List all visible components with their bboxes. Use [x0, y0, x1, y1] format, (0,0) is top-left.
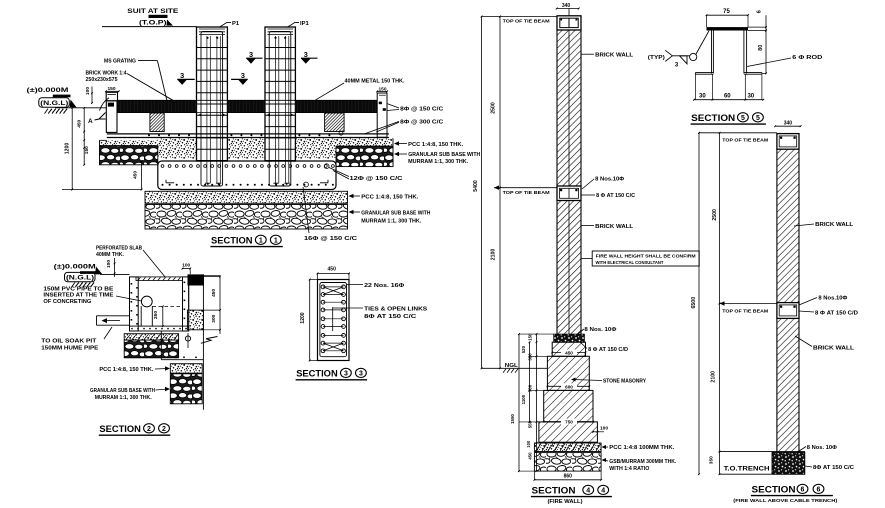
trench bottom slab lines with rebar dots — [107, 134, 389, 138]
svg-text:IP1: IP1 — [300, 21, 309, 27]
svg-text:2: 2 — [147, 426, 151, 433]
dimension 450 footing depth — [133, 160, 143, 190]
label TO OIL SOAK PIT — [41, 327, 112, 351]
svg-text:4: 4 — [601, 487, 605, 494]
right stipple block — [187, 310, 203, 330]
svg-text:250: 250 — [153, 311, 159, 319]
PCC band section 4-4 — [534, 443, 601, 452]
sump box right of pit — [161, 331, 203, 360]
svg-text:GRANULAR SUB BASE WITH: GRANULAR SUB BASE WITH — [361, 211, 430, 217]
section cut mark 3 left of column IP1 — [231, 71, 248, 85]
label PCC section 4-4 — [602, 445, 675, 451]
PCC layer under footing — [145, 191, 348, 203]
label P1 — [219, 21, 240, 28]
tick arrows at column faces — [198, 113, 293, 116]
label top of tie beam 1 section 4-4 — [482, 17, 557, 25]
svg-text:TOP OF TIE BEAM: TOP OF TIE BEAM — [503, 18, 550, 24]
dimension 340 top section 6-6 — [774, 120, 801, 127]
svg-text:(TYP): (TYP) — [648, 55, 665, 61]
label 8 dia 150 C/C — [387, 104, 444, 113]
svg-text:5400: 5400 — [473, 180, 479, 192]
NGL line section 4-4 — [482, 363, 547, 373]
label IP1 — [287, 21, 309, 28]
svg-text:30: 30 — [747, 94, 754, 100]
left granular sub base rubble band — [100, 146, 158, 165]
svg-text:8Φ @ 150 C/C: 8Φ @ 150 C/C — [400, 106, 443, 112]
svg-text:(FIRE WALL ABOVE CABLE TRENCH): (FIRE WALL ABOVE CABLE TRENCH) — [733, 498, 838, 503]
dimension 6500 overall section 6-6 — [691, 132, 700, 475]
tie beam box 1 section 6-6 — [777, 134, 799, 150]
svg-text:SECTION: SECTION — [99, 424, 141, 435]
lower granular block — [170, 374, 202, 404]
svg-text:1200: 1200 — [300, 312, 306, 323]
dimension 1200 section 3-3 — [300, 279, 317, 362]
svg-text:SECTION: SECTION — [752, 485, 796, 496]
svg-text:2100: 2100 — [490, 249, 496, 261]
svg-text:2100: 2100 — [711, 371, 717, 383]
label 8 dia AT 150 C/D section 4-4 — [580, 342, 628, 353]
title SECTION 2-2 — [99, 424, 171, 436]
dimension 450 right — [189, 276, 221, 334]
dimension 150 right wall — [376, 86, 388, 92]
label PCC right — [394, 141, 464, 148]
svg-text:12Φ @ 150 C/C: 12Φ @ 150 C/C — [350, 176, 403, 182]
svg-text:340: 340 — [784, 120, 793, 126]
label BRICK WALL upper section 4-4 — [582, 53, 635, 59]
svg-text:TO OIL SOAK PIT: TO OIL SOAK PIT — [41, 339, 96, 345]
svg-text:60: 60 — [724, 94, 731, 100]
pit bottom slab — [130, 326, 189, 331]
svg-text:T.O.TRENCH: T.O.TRENCH — [724, 466, 770, 473]
label BRICK WALL lower section 6-6 — [795, 336, 855, 352]
svg-text:16Φ @ 150 C/C: 16Φ @ 150 C/C — [304, 236, 357, 242]
svg-text:100: 100 — [85, 87, 91, 95]
label top of tie beam 1 section 6-6 — [699, 133, 777, 144]
svg-text:22 Nos. 16Φ: 22 Nos. 16Φ — [364, 283, 405, 289]
black masonry block — [188, 274, 205, 285]
svg-text:750: 750 — [565, 420, 573, 425]
svg-text:FIRE WALL HEIGHT SHALL BE CONF: FIRE WALL HEIGHT SHALL BE CONFIRM — [596, 254, 696, 259]
label 16 dia 150 C/C — [303, 187, 357, 242]
svg-text:SECTION: SECTION — [691, 113, 735, 124]
svg-text:2500: 2500 — [490, 102, 496, 114]
MS grating black band — [118, 100, 378, 112]
label BRICK WALL upper section 6-6 — [794, 222, 854, 228]
label top of tie beam 2 section 4-4 — [494, 185, 557, 196]
svg-text:1550: 1550 — [510, 414, 515, 424]
brick wall upper section 6-6 — [777, 149, 799, 302]
label PCC under footing — [349, 194, 419, 201]
brick wall lower section 6-6 — [777, 318, 799, 451]
svg-text:BRICK WALL: BRICK WALL — [813, 346, 855, 352]
svg-text:6 Φ ROD: 6 Φ ROD — [792, 55, 822, 61]
svg-text:GSB/MURRAM 300MM THK.: GSB/MURRAM 300MM THK. — [609, 459, 677, 465]
title SECTION 6-6 — [733, 484, 838, 503]
step width dims — [543, 350, 594, 425]
svg-text:SECTION: SECTION — [296, 369, 338, 380]
svg-text:3: 3 — [180, 71, 184, 80]
title SECTION 3-3 — [296, 368, 368, 380]
label 8 dia 300 C/C — [365, 120, 444, 134]
svg-text:100: 100 — [106, 260, 112, 268]
svg-text:1: 1 — [274, 237, 278, 244]
svg-text:150M PVC PIPE TO BE: 150M PVC PIPE TO BE — [43, 286, 114, 292]
svg-text:80: 80 — [758, 45, 764, 51]
pit top perforated slab — [136, 277, 183, 281]
svg-text:75: 75 — [723, 9, 730, 15]
svg-text:A: A — [88, 118, 93, 125]
dimension 6 plate thickness — [748, 9, 767, 31]
dimension 100 top left — [106, 258, 116, 277]
svg-text:P1: P1 — [232, 21, 240, 27]
svg-text:1100: 1100 — [521, 394, 526, 404]
svg-text:450: 450 — [211, 289, 217, 297]
svg-text:WITH ELECTRICAL CONSULTANT: WITH ELECTRICAL CONSULTANT — [596, 260, 664, 265]
pit left wall — [130, 277, 139, 331]
svg-text:3: 3 — [304, 50, 308, 59]
svg-text:600: 600 — [565, 384, 573, 389]
svg-text:450: 450 — [565, 351, 573, 356]
label PCC pit — [99, 366, 170, 373]
label GSB section 4-4 — [602, 458, 677, 472]
right wall lines of pit — [189, 274, 220, 409]
label 8 Nos 10 dia section 4-4 — [577, 327, 617, 334]
pit PCC band — [124, 334, 178, 340]
svg-text:2: 2 — [162, 426, 166, 433]
label granular sub base right — [394, 152, 480, 165]
dimension 1200 left — [62, 107, 142, 190]
svg-text:8 Nos.10Φ: 8 Nos.10Φ — [818, 295, 848, 301]
pit right wall — [183, 277, 189, 331]
svg-text:520: 520 — [521, 345, 526, 353]
svg-text:300: 300 — [211, 314, 217, 322]
svg-text:3: 3 — [249, 50, 253, 59]
svg-text:SUIT AT SITE: SUIT AT SITE — [127, 8, 178, 15]
label PVC pipe note — [43, 286, 141, 304]
svg-text:6500: 6500 — [691, 297, 697, 309]
svg-text:3: 3 — [241, 71, 245, 80]
svg-text:860: 860 — [564, 474, 573, 480]
svg-text:PERFORATED SLAB: PERFORATED SLAB — [96, 246, 142, 252]
svg-text:PCC 1:4:8, 150 THK.: PCC 1:4:8, 150 THK. — [99, 367, 154, 373]
dimension 450 top of section 3-3 — [317, 267, 350, 280]
title SECTION 5-5 — [691, 113, 766, 124]
svg-text:MURRAM 1:1, 300 THK.: MURRAM 1:1, 300 THK. — [408, 159, 469, 165]
svg-text:BRICK WALL: BRICK WALL — [815, 222, 854, 228]
svg-text:1200: 1200 — [64, 143, 70, 155]
svg-text:TOP OF TIE BEAM: TOP OF TIE BEAM — [503, 190, 550, 196]
section cut mark 3 left of column P1 — [177, 71, 195, 85]
left wall of trench — [100, 98, 118, 133]
label T.O.TRENCH — [724, 466, 770, 473]
stone masonry step 1 — [552, 342, 585, 356]
svg-text:1: 1 — [259, 237, 263, 244]
svg-text:MS GRATING: MS GRATING — [104, 58, 136, 64]
detail bracket A — [88, 113, 106, 126]
svg-text:BRICK WALL: BRICK WALL — [595, 224, 634, 230]
label BRICK WALL lower section 4-4 — [582, 224, 635, 230]
dimension 80 section 5-5 — [748, 30, 767, 75]
svg-text:250x230x575: 250x230x575 — [86, 77, 118, 83]
boxed note fire wall height — [582, 251, 700, 266]
svg-text:STONE MASONRY: STONE MASONRY — [603, 379, 647, 385]
dimension 2500 2100 section 4-4 — [490, 16, 501, 370]
label PERFORATED SLAB — [96, 246, 165, 277]
label top of tie beam 2 section 6-6 — [720, 301, 777, 314]
label STONE MASONRY — [571, 378, 647, 385]
section cut mark 3 right of column P1 — [246, 50, 263, 64]
top plate section 5-5 — [707, 27, 749, 30]
svg-text:350: 350 — [709, 456, 715, 464]
label 8 dia AT 150 beam2 — [582, 193, 636, 199]
svg-text:8 Φ AT 150 C/D: 8 Φ AT 150 C/D — [815, 311, 858, 317]
hatched brick pier 1 — [150, 113, 164, 132]
svg-text:GRANULAR SUB BASE WITH: GRANULAR SUB BASE WITH — [90, 388, 155, 394]
right granular sub base rubble band — [336, 146, 393, 166]
svg-text:100: 100 — [600, 425, 608, 431]
svg-text:TIES & OPEN LINKS: TIES & OPEN LINKS — [364, 306, 427, 312]
svg-text:150: 150 — [84, 146, 90, 154]
svg-text:SECTION: SECTION — [211, 236, 253, 247]
channel section 5-5 — [695, 31, 762, 75]
stone masonry step 4 — [539, 422, 598, 442]
svg-text:40MM METAL 150 THK.: 40MM METAL 150 THK. — [345, 78, 406, 84]
brick wall upper section 4-4 — [557, 30, 581, 186]
brick wall lower section 4-4 — [557, 201, 581, 335]
section 1-1 column P1 — [197, 27, 228, 186]
section 1-1 column IP1 — [265, 27, 295, 186]
tie beam box 2 section 6-6 — [777, 303, 799, 319]
label ties and open links — [333, 306, 428, 319]
label 40MM METAL 150 THK — [315, 78, 405, 100]
upper PCC stipple band — [100, 138, 394, 166]
lower dimension stack section 4-4 — [510, 333, 554, 472]
svg-text:450: 450 — [328, 267, 337, 273]
natural ground level marker — [27, 88, 107, 114]
dimension 5400 overall section 4-4 — [473, 16, 483, 370]
svg-text:PCC 1:4:8, 150 THK.: PCC 1:4:8, 150 THK. — [361, 194, 419, 200]
svg-text:5: 5 — [756, 115, 760, 122]
label 8 Nos 10 upper beam2 — [582, 177, 625, 189]
stone masonry step 2 — [547, 356, 589, 390]
dimension 860 bottom section 4-4 — [534, 471, 603, 481]
svg-text:TOP OF TIE BEAM: TOP OF TIE BEAM — [722, 309, 768, 315]
svg-text:8 Φ AT 150 C/D: 8 Φ AT 150 C/D — [588, 347, 628, 353]
svg-text:(±)0.000M: (±)0.000M — [27, 88, 69, 94]
svg-text:3: 3 — [359, 370, 363, 377]
lower PCC block — [170, 364, 202, 373]
label 6 dia rod — [747, 55, 822, 66]
svg-text:8Φ @ 300 C/C: 8Φ @ 300 C/C — [400, 120, 443, 126]
label 8 Nos 10 trench — [797, 445, 838, 453]
label 8 dia AT 150 C/D section 6-6 — [799, 311, 858, 317]
svg-text:BRICK WALL: BRICK WALL — [595, 53, 634, 59]
tie beam box 1 section 4-4 — [557, 16, 581, 30]
section 1-1 T.O.P level note SUIT AT SITE — [102, 8, 197, 27]
svg-text:INSERTED AT THE TIME: INSERTED AT THE TIME — [43, 293, 114, 299]
label 22 Nos 16 dia — [346, 283, 405, 289]
dimension 30 60 30 section 5-5 — [693, 74, 764, 100]
earthing electrode symbol — [185, 333, 217, 348]
svg-text:150MM HUME PIPE: 150MM HUME PIPE — [41, 345, 99, 351]
pipe to soak pit — [97, 316, 130, 325]
left curb brick 150 — [106, 92, 117, 101]
svg-text:8 Nos. 10Φ: 8 Nos. 10Φ — [584, 327, 617, 333]
dimension 100 top right — [182, 263, 192, 275]
granular band section 4-4 — [534, 453, 601, 472]
svg-text:(N.G.L): (N.G.L) — [66, 276, 94, 282]
svg-text:450: 450 — [133, 171, 139, 179]
svg-text:8 Nos.10Φ: 8 Nos.10Φ — [595, 177, 625, 183]
svg-text:340: 340 — [562, 3, 571, 9]
svg-text:(FIRE WALL): (FIRE WALL) — [548, 499, 583, 505]
granular sub base under footing — [145, 205, 348, 230]
label granular pit — [90, 387, 170, 401]
dimension 100 step offset — [592, 425, 608, 432]
dimension 150 left curb — [105, 86, 120, 92]
svg-text:SECTION: SECTION — [532, 486, 576, 497]
stone masonry step 3 — [544, 390, 593, 422]
right end wall — [377, 93, 387, 137]
svg-text:BRICK WORK 1:4: BRICK WORK 1:4 — [86, 71, 127, 77]
dimension 75 top section 5-5 — [706, 9, 749, 27]
label BRICK WORK — [86, 71, 173, 101]
svg-text:100: 100 — [526, 440, 531, 448]
svg-text:4: 4 — [586, 487, 590, 494]
section 2-2 ground level note — [54, 265, 130, 288]
svg-text:PCC 1:4:8 100MM THK.: PCC 1:4:8 100MM THK. — [609, 445, 675, 451]
svg-text:8Φ AT 150 C/C: 8Φ AT 150 C/C — [364, 314, 416, 320]
svg-text:40MM THK.: 40MM THK. — [96, 252, 125, 258]
label 12 dia 150 C/C — [329, 168, 403, 183]
section cut mark 3 right of column IP1 — [301, 50, 318, 64]
svg-text:OF CONCRETING: OF CONCRETING — [43, 299, 91, 305]
svg-text:8Φ AT 150 C/C: 8Φ AT 150 C/C — [813, 465, 854, 471]
svg-text:3: 3 — [344, 370, 348, 377]
plinth beam black band section 4-4 — [554, 334, 585, 342]
svg-text:(±)0.000M: (±)0.000M — [54, 265, 96, 271]
cable trench block — [720, 452, 806, 475]
dimension 100 450 150 left — [76, 87, 93, 166]
label MS GRATING — [104, 58, 167, 100]
svg-text:GRANULAR SUB BASE WITH: GRANULAR SUB BASE WITH — [408, 152, 480, 158]
label 8 Nos 10 section 6-6 beam2 — [799, 295, 848, 305]
svg-text:(N.G.L): (N.G.L) — [40, 101, 68, 107]
svg-text:6: 6 — [817, 486, 821, 493]
svg-text:8 Nos. 10Φ: 8 Nos. 10Φ — [807, 445, 838, 451]
column cross section 3-3 box — [318, 280, 350, 361]
svg-text:5: 5 — [741, 115, 745, 122]
svg-text:PCC 1:4:8, 150 THK.: PCC 1:4:8, 150 THK. — [408, 142, 464, 148]
hatched brick pier 2 — [325, 113, 345, 132]
weld symbol TYP — [648, 31, 709, 69]
svg-text:TOP OF TIE BEAM: TOP OF TIE BEAM — [722, 138, 768, 144]
label 8 dia AT 150 C/C trench — [805, 465, 854, 471]
svg-text:6: 6 — [801, 486, 805, 493]
svg-text:450: 450 — [527, 452, 532, 460]
svg-text:450: 450 — [76, 119, 82, 127]
title SECTION 4-4 — [531, 485, 612, 505]
PVC pipe circle — [141, 296, 182, 326]
dimension 250 pit — [153, 306, 164, 328]
svg-text:2500: 2500 — [712, 209, 718, 221]
svg-text:30: 30 — [699, 94, 706, 100]
svg-text:MURRAM 1:1, 300 THK.: MURRAM 1:1, 300 THK. — [95, 395, 153, 401]
dimension 340 top section 4-4 — [556, 3, 580, 16]
svg-text:WITH 1:4 RATIO: WITH 1:4 RATIO — [609, 466, 649, 472]
svg-text:8 Φ AT 150 C/C: 8 Φ AT 150 C/C — [596, 193, 635, 199]
pit granular sub base band — [124, 340, 178, 358]
dimension 2500 2100 350 section 6-6 — [709, 132, 721, 475]
label granular sub base under footing — [349, 210, 431, 225]
tie beam box 2 section 4-4 — [557, 186, 581, 201]
svg-text:MURRAM 1:1, 300 THK.: MURRAM 1:1, 300 THK. — [361, 218, 422, 224]
svg-text:(T.O.P): (T.O.P) — [139, 20, 167, 27]
footing with rebar dots — [158, 131, 343, 189]
title SECTION 1-1 — [210, 235, 282, 246]
